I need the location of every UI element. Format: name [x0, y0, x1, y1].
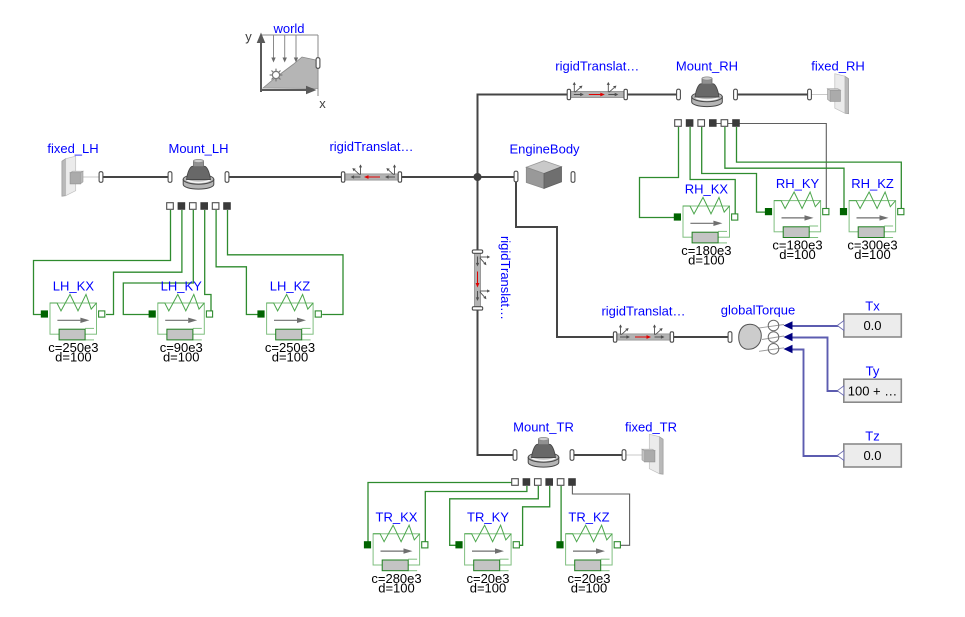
- svg-text:globalTorque: globalTorque: [721, 303, 795, 318]
- svg-text:d=100: d=100: [470, 580, 507, 595]
- expression box Tz: [844, 444, 902, 467]
- wire Mount_RH to fixed_RH: [810, 94, 831, 96]
- svg-text:y: y: [245, 29, 252, 44]
- Mount_LH flange row: [167, 203, 174, 210]
- rigidTranslation4 bar (to torque): [613, 324, 673, 342]
- svg-text:d=100: d=100: [378, 580, 415, 595]
- wire Mount_RH pin2 to RH_KX right flange: [690, 127, 735, 214]
- svg-text:d=100: d=100: [854, 247, 891, 262]
- svg-text:d=100: d=100: [163, 350, 200, 365]
- rigidTranslation3 bar (vertical): [472, 250, 490, 310]
- svg-text:d=100: d=100: [688, 253, 725, 268]
- svg-text:EngineBody: EngineBody: [509, 142, 580, 157]
- wire rigidTranslation2 to Mount_RH: [626, 94, 679, 96]
- svg-text:RH_KY: RH_KY: [776, 176, 820, 191]
- svg-text:TR_KZ: TR_KZ: [568, 509, 609, 524]
- svg-text:fixed_RH: fixed_RH: [811, 59, 864, 74]
- svg-text:Tx: Tx: [865, 299, 880, 314]
- svg-text:world: world: [272, 21, 304, 36]
- Mount_TR right pin: [570, 450, 574, 461]
- svg-text:fixed_TR: fixed_TR: [625, 420, 677, 435]
- globalTorque pin: [728, 332, 732, 343]
- signal wire Ty to globalTorque: [791, 338, 839, 392]
- wire Mount_TR pin2 to TR_KX right flange: [425, 486, 527, 542]
- spring-damper LH_KY: [149, 294, 212, 340]
- fixed_LH wall: [62, 159, 66, 197]
- wire Mount_LH pin3 to LH_KY left flange: [123, 210, 193, 315]
- wire Mount_LH pin4 to LH_KY right flange: [205, 210, 211, 312]
- world component W1: [245, 29, 326, 111]
- wire Mount_LH pin1 to LH_KX left flange: [34, 210, 171, 315]
- Mount_LH right pin: [225, 172, 229, 183]
- svg-text:Mount_TR: Mount_TR: [513, 420, 574, 435]
- wire rigidTranslation3 down to Mount_TR: [478, 308, 516, 455]
- fixed_RH wall: [845, 76, 849, 114]
- rigidTranslation2 bar (top RH): [567, 82, 627, 100]
- spring-damper LH_KZ: [258, 294, 322, 340]
- svg-text:Tz: Tz: [865, 429, 879, 444]
- fixed_TR wall: [659, 437, 663, 475]
- signal wire Tz to globalTorque: [791, 350, 839, 457]
- spring-damper RH_KZ: [840, 192, 904, 238]
- rigidTranslation1 bar (LH): [341, 164, 401, 182]
- wire Mount_LH to rigidTranslation1: [227, 176, 343, 178]
- svg-text:d=100: d=100: [272, 350, 309, 365]
- svg-text:fixed_LH: fixed_LH: [47, 141, 98, 156]
- wire junction to EngineBody: [478, 176, 517, 178]
- svg-text:LH_KX: LH_KX: [53, 279, 95, 294]
- wire fixed_LH to Mount_LH: [82, 176, 101, 178]
- wire Mount_RH pin5 to RH_KZ left flange: [725, 127, 844, 209]
- svg-text:d=100: d=100: [55, 350, 92, 365]
- spring-damper TR_KY: [456, 525, 520, 571]
- spring-damper LH_KX: [41, 294, 104, 340]
- globalTorque component: [739, 320, 784, 354]
- fixed_RH pin: [808, 89, 812, 100]
- Mount_TR flange row: [512, 479, 519, 486]
- globalTorque input arrowheads: [784, 321, 793, 329]
- wire junction down to rigidTranslation3 (vertical): [477, 177, 479, 252]
- Mount_LH component: [183, 179, 214, 189]
- wire Mount_LH pin5 to LH_KZ left flange: [216, 210, 258, 315]
- spring-damper TR_KX: [364, 525, 428, 571]
- svg-text:TR_KY: TR_KY: [467, 509, 509, 524]
- wire Mount_RH pin4 to RH_KY right flange (gray): [713, 124, 826, 210]
- expression box Ty: [844, 379, 902, 402]
- wire Mount_TR pin4 to TR_KY right flange: [520, 486, 550, 545]
- wire Mount_LH pin2 to LH_KX right flange: [106, 210, 182, 315]
- wire Mount_TR pin3 to TR_KY left flange: [450, 486, 539, 545]
- svg-text:LH_KZ: LH_KZ: [270, 279, 311, 294]
- wire Mount_RH pin6 to RH_KZ right flange: [737, 127, 902, 209]
- EngineBody right pin: [571, 172, 575, 183]
- Mount_RH right pin: [734, 89, 738, 100]
- wire Mount_RH pin1 to RH_KX left flange: [640, 127, 679, 218]
- svg-text:d=100: d=100: [571, 580, 608, 595]
- svg-text:d=100: d=100: [779, 247, 816, 262]
- wire Mount_TR pin5 to TR_KZ left flange: [560, 486, 562, 542]
- svg-text:Mount_RH: Mount_RH: [676, 59, 738, 74]
- Mount_RH left pin: [677, 89, 681, 100]
- wire Mount_TR pin6 to TR_KZ right flange (gray): [572, 486, 629, 546]
- EngineBody left pin: [514, 171, 518, 182]
- Mount_RH component: [692, 97, 723, 107]
- svg-text:0.0: 0.0: [863, 318, 881, 333]
- expression box Tx: [844, 314, 902, 337]
- svg-text:0.0: 0.0: [863, 448, 881, 463]
- svg-text:Mount_LH: Mount_LH: [169, 141, 229, 156]
- wire Mount_TR pin1 to TR_KX left flange: [368, 483, 512, 542]
- wire Mount_RH pin3 to RH_KY left flange: [702, 127, 766, 212]
- wire Mount_LH pin6 to LH_KZ right flange: [228, 210, 344, 315]
- svg-text:x: x: [319, 96, 326, 111]
- spring-damper RH_KY: [765, 192, 829, 238]
- signal wire Tx to globalTorque: [791, 325, 839, 327]
- wire Mount_TR to fixed_TR: [624, 454, 646, 456]
- svg-text:rigidTranslat…: rigidTranslat…: [555, 59, 639, 74]
- wire EngineBody to rigidTranslation4: [516, 180, 616, 337]
- svg-text:Ty: Ty: [866, 364, 880, 379]
- svg-text:rigidTranslat…: rigidTranslat…: [601, 304, 685, 319]
- Mount_TR component: [528, 457, 559, 467]
- svg-text:LH_KY: LH_KY: [161, 279, 203, 294]
- wire rigidTranslation4 to globalTorque: [672, 336, 730, 338]
- junction node at EngineBody frame: [474, 173, 482, 181]
- Mount_LH left pin: [168, 172, 172, 183]
- spring-damper RH_KX: [674, 197, 738, 243]
- Mount_RH flange row: [675, 120, 682, 127]
- svg-text:rigidTranslat…: rigidTranslat…: [329, 139, 413, 154]
- wire rigidTranslation1 to junction: [400, 176, 478, 178]
- svg-text:RH_KX: RH_KX: [685, 182, 729, 197]
- svg-text:TR_KX: TR_KX: [376, 509, 418, 524]
- fixed_TR pin: [622, 450, 626, 461]
- svg-text:RH_KZ: RH_KZ: [851, 176, 894, 191]
- svg-text:rigidTranslat…: rigidTranslat…: [498, 236, 513, 320]
- EngineBody cube: [526, 161, 561, 189]
- wire junction up to top row: [478, 95, 570, 178]
- Mount_TR left pin: [513, 450, 517, 461]
- fixed_LH pin: [99, 172, 103, 183]
- spring-damper TR_KZ: [557, 525, 621, 571]
- svg-text:100 + …: 100 + …: [848, 383, 898, 398]
